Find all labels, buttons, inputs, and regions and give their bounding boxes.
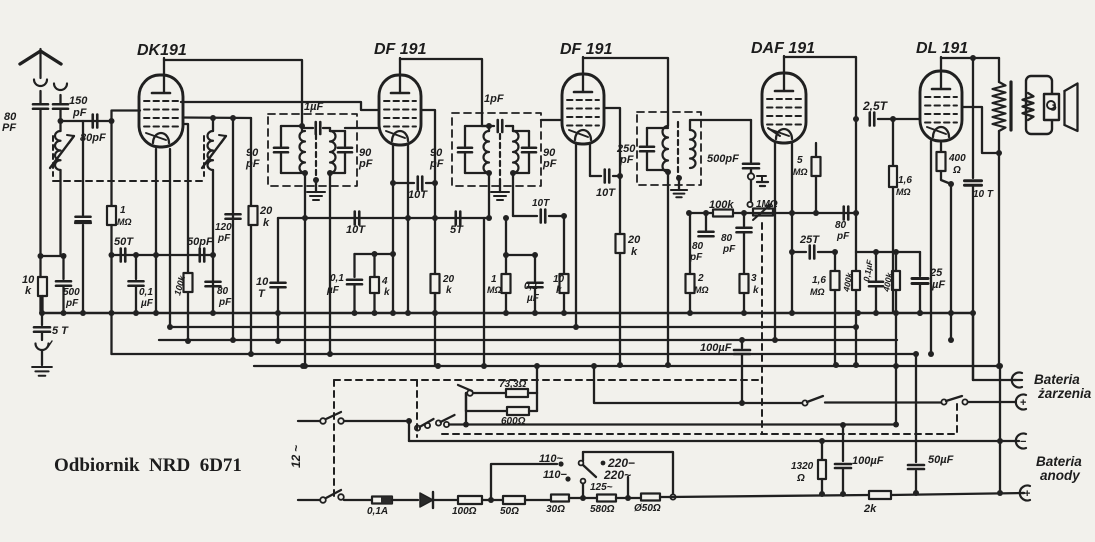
svg-text:Ω: Ω	[796, 473, 805, 484]
filament dashed box	[334, 380, 957, 497]
capacitor 10T series	[390, 177, 438, 202]
speaker cone	[1065, 84, 1078, 132]
filament plus wire	[591, 363, 802, 406]
capacitor 1pF grid	[482, 93, 513, 132]
switch S1b	[409, 415, 455, 441]
switch S3	[941, 396, 1016, 405]
wire input node	[58, 118, 115, 124]
svg-text:5T: 5T	[450, 224, 464, 236]
svg-text:30Ω: 30Ω	[546, 504, 565, 515]
svg-text:1320: 1320	[791, 461, 814, 472]
capacitor 80pF	[689, 213, 714, 274]
rail 2	[167, 324, 859, 330]
tube DL191	[920, 57, 962, 141]
svg-text:DL 191: DL 191	[916, 40, 968, 57]
switch lever 110	[579, 461, 596, 477]
anode bottom wire	[669, 493, 1024, 497]
wire DF2 legs	[576, 144, 590, 327]
svg-text:80: 80	[721, 233, 733, 244]
svg-text:pF: pF	[65, 298, 79, 309]
node junction	[38, 253, 67, 259]
svg-text:pF: pF	[245, 158, 260, 170]
wire to output transformer	[998, 58, 1000, 82]
resistor 1M	[487, 215, 511, 313]
label 250 pF	[616, 143, 636, 166]
resistor 050	[634, 494, 669, 515]
label 80 PF	[2, 111, 17, 134]
svg-text:1µF: 1µF	[304, 101, 323, 113]
wire 2.5k node	[970, 310, 976, 380]
svg-text:1: 1	[120, 205, 126, 216]
svg-text:500: 500	[63, 287, 80, 298]
rail dots	[39, 310, 954, 316]
svg-text:220~: 220~	[603, 468, 631, 482]
tube DF191 first	[379, 58, 421, 145]
label 90 pF	[429, 147, 444, 170]
svg-text:3: 3	[751, 273, 757, 284]
svg-text:20: 20	[627, 234, 641, 246]
wire DL plate to transformer	[962, 107, 999, 153]
terminal anody plus	[1020, 486, 1031, 501]
svg-text:150: 150	[69, 95, 88, 107]
wire filament feed	[741, 366, 743, 403]
capacitor 0.1uF	[524, 252, 543, 313]
label 110~	[539, 453, 564, 467]
output transformer primary	[993, 82, 1006, 156]
capacitor 80pF	[33, 91, 48, 313]
svg-text:1MΩ: 1MΩ	[756, 199, 778, 210]
capacitor 50pF series	[153, 236, 216, 262]
resistor 580	[590, 495, 641, 516]
svg-text:125~: 125~	[590, 482, 613, 493]
gang dashed line	[53, 180, 204, 182]
svg-text:−: −	[1020, 436, 1026, 448]
resistor 1.6M	[810, 252, 840, 364]
svg-text:1: 1	[491, 274, 497, 285]
IF2 secondary coil	[513, 131, 529, 173]
wire DF2 anode to T3	[583, 58, 668, 126]
switch S2	[802, 396, 941, 406]
svg-text:5: 5	[797, 155, 803, 166]
resistor 5M	[793, 143, 821, 213]
wire rheostat link	[463, 393, 469, 428]
label 90 pF	[358, 147, 373, 170]
capacitor 500pF	[56, 256, 80, 313]
label DAF 191	[751, 40, 815, 57]
detector transformer T3 dashed box	[637, 112, 701, 185]
switch S1a	[298, 412, 412, 424]
rheostat switch	[458, 385, 506, 396]
capacitor 120pF	[215, 196, 241, 244]
svg-text:µF: µF	[140, 298, 154, 309]
svg-text:+: +	[1024, 488, 1030, 500]
wire	[232, 118, 234, 340]
T3 secondary coil	[690, 130, 696, 168]
resistor 400k	[841, 271, 860, 294]
wire transformer down	[996, 153, 1002, 369]
svg-text:anody: anody	[1040, 468, 1081, 483]
svg-text:pF: pF	[429, 158, 444, 170]
svg-text:Bateria: Bateria	[1036, 454, 1082, 469]
volume bus	[686, 210, 858, 216]
label DL 191	[916, 40, 968, 57]
svg-text:73,3Ω: 73,3Ω	[499, 379, 526, 390]
capacitor 2.5T series	[862, 99, 920, 126]
svg-text:2: 2	[697, 273, 704, 284]
resistor 2M	[686, 213, 709, 313]
svg-text:100µF: 100µF	[852, 455, 884, 467]
label 12V	[289, 445, 303, 468]
IF1 bottom legs	[302, 170, 333, 369]
wire DF191 plate out	[421, 110, 435, 366]
wire IF2 to DF2 grid	[541, 119, 562, 121]
wire DK191 plate to DF191 grid	[181, 102, 379, 110]
svg-text:k: k	[556, 285, 562, 296]
svg-text:1,6: 1,6	[898, 175, 912, 186]
wire DF2 plate out	[604, 108, 623, 179]
wire DAF legs	[775, 143, 792, 340]
resistor 50	[500, 496, 551, 517]
svg-text:MΩ: MΩ	[694, 285, 709, 295]
svg-text:4: 4	[381, 276, 388, 287]
svg-text:k: k	[753, 285, 759, 296]
capacitor 5T series	[450, 212, 464, 237]
svg-text:0,1: 0,1	[139, 287, 153, 298]
wire	[948, 181, 954, 340]
svg-text:50T: 50T	[114, 236, 134, 248]
svg-text:pF: pF	[358, 158, 373, 170]
T3 core	[677, 122, 679, 178]
T3 ground	[671, 175, 687, 197]
svg-text:pF: pF	[542, 158, 557, 170]
capacitor 25T series	[789, 234, 838, 259]
tap 220	[627, 477, 629, 498]
wire detector	[690, 120, 751, 162]
AVC line dashed	[761, 223, 763, 434]
svg-text:k: k	[263, 217, 270, 229]
resistor 400k	[873, 249, 900, 366]
dashed switch link	[955, 404, 957, 431]
capacitor 80pF	[721, 213, 752, 274]
ground hook	[36, 341, 53, 365]
wire DAF anode	[784, 57, 856, 119]
wire DK191 screen	[183, 115, 251, 121]
diode	[420, 492, 458, 508]
svg-text:Odbiornik NRD 6D71: Odbiornik NRD 6D71	[54, 455, 242, 476]
wire AVC bus	[278, 215, 489, 221]
resistor 20k	[431, 274, 455, 316]
svg-text:+: +	[1020, 397, 1026, 409]
svg-text:pF: pF	[619, 154, 634, 166]
capacitor 0.1uF	[861, 252, 883, 313]
label DF 191	[374, 41, 427, 58]
diode plate inside	[768, 128, 780, 136]
svg-text:10T: 10T	[532, 198, 550, 209]
capacitor 150pF	[53, 95, 68, 121]
svg-text:80: 80	[217, 286, 229, 297]
svg-text:MΩ: MΩ	[810, 287, 825, 297]
ground chain 5T	[34, 313, 69, 340]
fuse 0.1A	[367, 497, 418, 518]
IF2 ground	[491, 180, 509, 200]
svg-text:pF: pF	[722, 244, 736, 255]
wire DK191 to node	[183, 124, 191, 344]
resistor 1320	[791, 438, 826, 497]
resistor 600	[937, 143, 967, 184]
svg-text:2,5T: 2,5T	[862, 99, 889, 113]
label 220	[601, 456, 635, 482]
IF2 left capacitor 90pF	[458, 126, 489, 173]
capacitor 10T series	[346, 212, 366, 237]
IF transformer T1 dashed box	[268, 114, 357, 186]
oscillator coil L2 variable	[202, 118, 226, 313]
capacitor 50T series	[109, 236, 156, 262]
svg-text:10 T: 10 T	[973, 189, 994, 200]
wire	[950, 339, 952, 341]
IF1 ground	[307, 177, 325, 200]
svg-text:400: 400	[948, 153, 966, 164]
capacitor 25uF	[912, 252, 945, 316]
svg-text:PF: PF	[2, 122, 16, 134]
svg-text:580Ω: 580Ω	[590, 504, 615, 515]
capacitor 0.1uF	[326, 254, 362, 313]
svg-text:~: ~	[289, 445, 303, 452]
svg-text:k: k	[631, 246, 638, 258]
tube DAF191	[762, 56, 806, 143]
svg-text:Ø50Ω: Ø50Ω	[634, 503, 661, 514]
label 90 pF	[542, 147, 557, 170]
tube DK191	[139, 58, 183, 147]
trimmer capacitor	[75, 121, 91, 313]
wire	[503, 252, 535, 258]
capacitor 80pF series	[835, 207, 850, 243]
svg-text:0,1A: 0,1A	[367, 506, 388, 517]
svg-text:120: 120	[215, 222, 232, 233]
svg-text:MΩ: MΩ	[793, 167, 808, 177]
speaker frame	[1026, 76, 1052, 134]
IF transformer T2 dashed box	[452, 113, 541, 186]
wire	[483, 218, 485, 366]
label Bateria anody	[1036, 454, 1082, 483]
resistor 2k	[863, 491, 891, 515]
selector wires	[583, 452, 676, 500]
wire rheostat right	[534, 363, 540, 411]
svg-text:12: 12	[289, 454, 303, 468]
wire	[856, 251, 920, 253]
svg-text:Bateria: Bateria	[1034, 372, 1080, 387]
svg-text:50Ω: 50Ω	[500, 506, 519, 517]
wire DF191 anode to IF2	[400, 59, 482, 126]
tap 125	[581, 479, 613, 498]
wire into grid left	[345, 127, 379, 129]
resistor 20k	[616, 176, 642, 364]
svg-text:pF: pF	[217, 233, 231, 244]
svg-text:pF: pF	[72, 107, 87, 119]
antenna	[20, 49, 61, 78]
speaker secondary coil	[1023, 93, 1034, 120]
wire anody vertical	[997, 366, 1003, 496]
svg-text:k: k	[25, 285, 32, 297]
label DF 191 second	[560, 41, 613, 58]
svg-text:110−: 110−	[543, 469, 568, 481]
svg-text:1,6: 1,6	[812, 275, 826, 286]
rail 4	[112, 313, 935, 357]
oscillator coil L1 variable	[50, 121, 74, 256]
capacitor 80pF series	[80, 115, 106, 145]
terminal zarzenia plus	[1016, 395, 1027, 410]
svg-text:0,1: 0,1	[330, 273, 344, 284]
svg-text:DAF 191: DAF 191	[751, 40, 815, 57]
svg-text:MΩ: MΩ	[117, 217, 132, 227]
svg-text:100µF: 100µF	[700, 342, 732, 354]
label DK191	[137, 42, 187, 59]
svg-text:50µF: 50µF	[928, 454, 954, 466]
svg-text:50pF: 50pF	[187, 236, 213, 248]
IF2 bottom legs	[486, 170, 516, 221]
wire DK191 cathode legs	[156, 149, 170, 327]
label 110-	[543, 469, 571, 482]
tube DF191 second	[562, 57, 604, 144]
junction	[488, 464, 557, 503]
IF1 secondary coil	[330, 131, 345, 173]
wire	[355, 251, 397, 257]
IF1 left capacitor 90pF	[274, 126, 305, 173]
IF1 right capacitor 90pF	[330, 131, 352, 173]
antenna coupling hooks	[34, 80, 67, 91]
IF2 core	[499, 134, 501, 180]
svg-text:2k: 2k	[863, 503, 877, 515]
IF2 right capacitor 90pF	[513, 131, 536, 173]
resistor 3k	[740, 273, 760, 313]
svg-text:DK191: DK191	[137, 42, 187, 59]
svg-text:80: 80	[692, 241, 704, 252]
svg-text:µF: µF	[326, 285, 340, 296]
wire DK191 anode to IF1	[164, 60, 302, 126]
svg-text:DF 191: DF 191	[560, 41, 613, 58]
svg-text:pF: pF	[218, 297, 232, 308]
capacitor 10T shunt	[256, 218, 286, 344]
resistor 1M	[107, 121, 132, 313]
title Odbiornik NRD 6D71	[54, 455, 242, 476]
capacitor 0.1uF	[129, 255, 154, 313]
svg-text:Ω: Ω	[952, 165, 961, 176]
resistor 1.6M grid DL	[889, 119, 912, 313]
svg-text:MΩ: MΩ	[487, 285, 502, 295]
capacitor 10T series	[513, 173, 567, 223]
resistor 4k	[370, 254, 390, 313]
capacitor 80pF	[206, 282, 233, 308]
resistor 73.3	[499, 379, 537, 397]
svg-text:µF: µF	[526, 293, 540, 304]
svg-text:1pF: 1pF	[484, 93, 504, 105]
svg-text:20: 20	[259, 205, 273, 217]
terminal zarzenia minus	[973, 373, 1022, 388]
capacitor 500pF detector	[707, 153, 759, 201]
T3 primary coil	[663, 126, 668, 172]
IF2 primary coil	[484, 126, 489, 173]
wire	[250, 118, 252, 354]
speaker magnet	[1044, 94, 1059, 120]
svg-text:500pF: 500pF	[707, 153, 739, 165]
switch S4 mains	[298, 490, 372, 503]
svg-text:10T: 10T	[596, 187, 616, 199]
resistor 30	[546, 495, 597, 516]
wire screen	[853, 116, 859, 364]
terminal anody minus	[1016, 434, 1027, 449]
svg-text:żarzenia: żarzenia	[1037, 386, 1092, 401]
svg-text:0,1: 0,1	[524, 281, 538, 292]
rail 3	[159, 337, 954, 343]
ground	[32, 367, 52, 376]
resistor 10k	[553, 216, 569, 313]
svg-text:10T: 10T	[408, 189, 428, 201]
wire IF1 secondary down	[327, 173, 333, 357]
wire rail3 tail	[859, 339, 861, 341]
wire filter bus	[449, 366, 899, 428]
resistor 100k	[709, 199, 734, 217]
IF1 primary coil	[281, 123, 305, 173]
label 150 pF	[69, 95, 88, 119]
capacitor 100uF filter	[835, 422, 884, 497]
capacitor 100uF	[700, 337, 750, 366]
IF1 core	[315, 134, 317, 180]
svg-text:pF: pF	[836, 231, 850, 242]
svg-text:µF: µF	[931, 279, 945, 291]
terminal wire minus	[409, 440, 1016, 442]
resistor 10k	[22, 274, 47, 313]
svg-text:DF 191: DF 191	[374, 41, 427, 58]
svg-text:k: k	[384, 287, 390, 298]
wire to DK191 grid	[112, 111, 141, 122]
resistor 100k	[172, 273, 192, 297]
svg-text:5 T: 5 T	[52, 325, 69, 337]
svg-text:100k: 100k	[709, 199, 734, 211]
svg-text:10T: 10T	[346, 224, 366, 236]
wire DF191 legs	[393, 145, 408, 313]
label 90 pF	[245, 147, 260, 170]
rail 5	[254, 362, 1003, 369]
wire DL anode top	[941, 55, 999, 61]
svg-text:10: 10	[256, 276, 269, 288]
svg-text:100Ω: 100Ω	[452, 506, 477, 517]
svg-text:20: 20	[442, 274, 455, 285]
svg-text:25T: 25T	[799, 234, 820, 246]
wire T3 out	[665, 169, 671, 364]
transformer core	[1009, 82, 1012, 130]
capacitor 10T series	[590, 170, 620, 200]
svg-text:MΩ: MΩ	[896, 187, 911, 197]
svg-text:80: 80	[835, 220, 847, 231]
capacitor 1uF grid	[302, 101, 330, 134]
main rail	[42, 312, 973, 315]
resistor 600	[466, 393, 537, 427]
capacitor 10T	[965, 58, 994, 380]
T3 capacitor 250pF	[640, 128, 668, 170]
capacitor 50uF	[908, 351, 954, 496]
detector stub	[757, 176, 768, 186]
resistor 100	[452, 496, 503, 517]
svg-text:k: k	[446, 285, 452, 296]
svg-text:10: 10	[553, 274, 565, 285]
wire DL legs	[931, 141, 948, 354]
potentiometer 1M	[747, 199, 777, 220]
label Bateria zarzenia	[1034, 372, 1092, 401]
resistor 20k	[249, 205, 274, 229]
